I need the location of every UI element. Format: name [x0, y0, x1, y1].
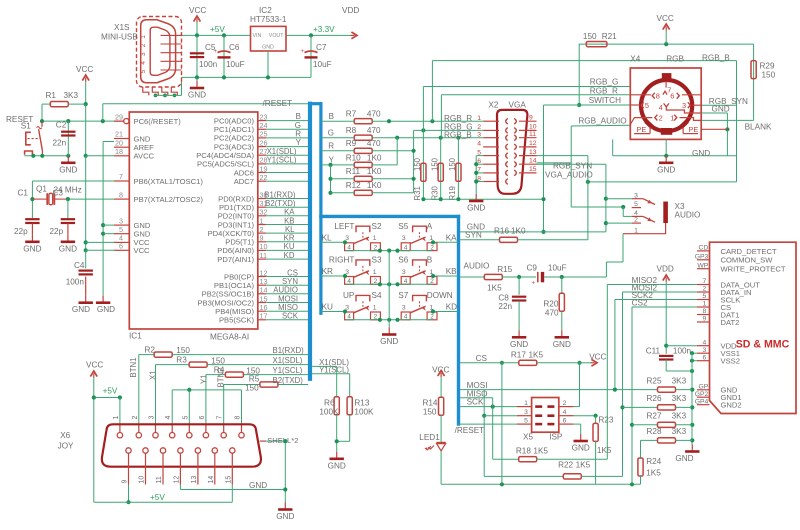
svg-text:R9: R9	[346, 139, 357, 148]
svg-text:150: 150	[762, 71, 776, 80]
svg-text:PE: PE	[688, 125, 698, 134]
svg-text:GP3: GP3	[695, 254, 709, 261]
svg-text:GND: GND	[188, 91, 206, 100]
svg-text:R26: R26	[647, 394, 662, 403]
svg-text:GND: GND	[657, 165, 675, 174]
svg-text:KA: KA	[446, 234, 457, 243]
svg-text:PB7(XTAL2/TOSC2): PB7(XTAL2/TOSC2)	[134, 195, 204, 204]
svg-text:GND: GND	[97, 305, 115, 314]
svg-text:WRITE_PROTECT: WRITE_PROTECT	[721, 265, 786, 274]
svg-text:9: 9	[122, 480, 129, 484]
svg-text:5: 5	[119, 225, 123, 234]
svg-text:7: 7	[119, 172, 123, 181]
svg-text:8: 8	[703, 308, 707, 315]
svg-text:6: 6	[563, 418, 567, 425]
svg-text:BLANK: BLANK	[745, 123, 772, 132]
svg-text:RGB_AUDIO: RGB_AUDIO	[578, 117, 626, 126]
svg-text:R25: R25	[647, 376, 662, 385]
svg-text:Y1: Y1	[200, 374, 209, 384]
svg-text:R3: R3	[176, 356, 187, 365]
svg-text:9: 9	[529, 114, 533, 121]
svg-text:6: 6	[670, 92, 674, 101]
svg-text:+3.3V: +3.3V	[313, 25, 335, 34]
svg-text:23: 23	[260, 112, 268, 121]
svg-text:R15: R15	[497, 265, 512, 274]
svg-text:/RESET: /RESET	[263, 99, 293, 108]
svg-text:8: 8	[656, 92, 660, 101]
svg-text:10: 10	[139, 476, 146, 484]
svg-text:1K0: 1K0	[367, 153, 382, 162]
svg-text:3: 3	[682, 101, 686, 110]
svg-text:C6: C6	[229, 43, 240, 52]
svg-text:G: G	[328, 129, 334, 138]
svg-text:JOY: JOY	[58, 442, 74, 451]
svg-text:Y1(SCL): Y1(SCL)	[267, 156, 297, 165]
svg-text:11: 11	[260, 251, 267, 260]
svg-text:1K5: 1K5	[529, 351, 544, 360]
svg-text:150: 150	[245, 383, 259, 392]
svg-text:10uF: 10uF	[313, 60, 332, 69]
svg-text:R27: R27	[647, 412, 662, 421]
svg-text:KL: KL	[322, 234, 332, 243]
svg-text:IC2: IC2	[259, 6, 272, 15]
svg-text:PD7(AIN1): PD7(AIN1)	[217, 255, 254, 264]
svg-text:15: 15	[225, 476, 232, 484]
svg-text:PC4(ADC4/SDA): PC4(ADC4/SDA)	[196, 151, 254, 160]
svg-text:ADC7: ADC7	[234, 177, 254, 186]
svg-text:150: 150	[423, 408, 437, 417]
svg-text:3K3: 3K3	[64, 91, 79, 100]
svg-text:ISP: ISP	[549, 433, 563, 442]
svg-text:S6: S6	[398, 256, 408, 265]
svg-text:22n: 22n	[498, 302, 512, 311]
svg-text:R12: R12	[346, 181, 361, 190]
svg-text:PD0(RXD): PD0(RXD)	[218, 194, 254, 203]
svg-text:32: 32	[260, 208, 268, 217]
svg-text:2: 2	[140, 43, 147, 47]
svg-text:12: 12	[260, 268, 268, 277]
svg-text:5: 5	[645, 101, 649, 110]
svg-text:Y: Y	[296, 138, 302, 147]
svg-text:R16: R16	[494, 227, 509, 236]
svg-text:1K5: 1K5	[487, 284, 502, 293]
svg-text:4: 4	[659, 103, 663, 112]
svg-text:4: 4	[703, 339, 707, 346]
svg-text:C11: C11	[646, 346, 661, 355]
svg-text:22p: 22p	[50, 227, 64, 236]
svg-text:KD: KD	[284, 251, 295, 260]
svg-text:10uF: 10uF	[226, 60, 245, 69]
svg-text:B1(RXD): B1(RXD)	[264, 190, 296, 199]
svg-text:GND: GND	[712, 105, 730, 114]
svg-text:R19: R19	[448, 186, 457, 200]
svg-text:17: 17	[260, 312, 268, 321]
svg-text:5: 5	[634, 201, 638, 208]
svg-text:KD: KD	[446, 303, 457, 312]
svg-text:SCK: SCK	[467, 398, 484, 407]
svg-text:+: +	[532, 281, 536, 287]
svg-text:R22: R22	[558, 461, 573, 470]
svg-text:KB: KB	[446, 267, 457, 276]
svg-text:29: 29	[115, 112, 123, 121]
svg-text:8: 8	[119, 190, 123, 199]
svg-text:3: 3	[402, 235, 406, 242]
svg-text:GP4: GP4	[695, 398, 709, 405]
svg-text:GND: GND	[59, 165, 77, 174]
svg-text:SYN: SYN	[465, 230, 482, 239]
svg-text:WP: WP	[697, 262, 708, 269]
svg-text:VGA_AUDIO: VGA_AUDIO	[545, 171, 593, 180]
svg-text:R: R	[295, 129, 301, 138]
svg-text:PC6(/RESET): PC6(/RESET)	[134, 117, 182, 126]
svg-text:8: 8	[235, 416, 242, 420]
svg-text:AUDIO: AUDIO	[464, 262, 490, 271]
svg-text:+5V: +5V	[210, 25, 225, 34]
svg-text:10: 10	[260, 242, 268, 251]
svg-text:MOSI: MOSI	[278, 294, 298, 303]
svg-text:3: 3	[634, 192, 638, 199]
svg-text:14: 14	[260, 286, 268, 295]
svg-text:GND: GND	[249, 481, 267, 490]
svg-text:CS2: CS2	[632, 299, 648, 308]
svg-text:COMMON_SW: COMMON_SW	[721, 256, 774, 265]
svg-text:R14: R14	[422, 399, 437, 408]
svg-text:+: +	[301, 49, 305, 55]
svg-text:15: 15	[260, 294, 268, 303]
svg-text:150: 150	[583, 32, 597, 41]
svg-text:X2: X2	[488, 101, 498, 110]
svg-text:7: 7	[703, 278, 707, 285]
svg-text:GND: GND	[59, 244, 77, 253]
svg-text:GND: GND	[572, 444, 590, 453]
svg-text:1K0: 1K0	[367, 167, 382, 176]
svg-text:3: 3	[149, 416, 156, 420]
svg-text:7: 7	[217, 416, 224, 420]
svg-text:2: 2	[563, 400, 567, 407]
svg-text:RGB_G: RGB_G	[590, 78, 619, 87]
svg-text:3K3: 3K3	[672, 376, 687, 385]
svg-text:470: 470	[367, 126, 381, 135]
svg-text:5: 5	[140, 69, 147, 73]
svg-text:R1: R1	[46, 91, 57, 100]
svg-text:1: 1	[670, 114, 674, 123]
svg-text:1: 1	[703, 301, 707, 308]
svg-text:X1S: X1S	[114, 23, 130, 32]
svg-text:1K5: 1K5	[597, 446, 612, 455]
svg-text:VCC: VCC	[134, 246, 151, 255]
svg-text:100n: 100n	[199, 60, 218, 69]
svg-text:2: 2	[132, 416, 139, 420]
svg-text:2: 2	[659, 114, 663, 123]
svg-text:R: R	[328, 142, 334, 151]
svg-text:3: 3	[140, 52, 147, 56]
svg-text:2: 2	[703, 286, 707, 293]
svg-text:R11: R11	[346, 167, 361, 176]
svg-text:1: 1	[140, 35, 147, 39]
svg-text:+5V: +5V	[103, 386, 118, 395]
svg-text:100n: 100n	[66, 278, 85, 287]
svg-text:+5V: +5V	[150, 493, 165, 502]
svg-text:22: 22	[260, 173, 268, 182]
svg-text:S3: S3	[372, 256, 382, 265]
svg-text:PB0(CP): PB0(CP)	[224, 272, 254, 281]
svg-text:PB2(SS/OC1B): PB2(SS/OC1B)	[202, 290, 255, 299]
svg-text:GND: GND	[328, 461, 346, 470]
svg-text:CS: CS	[476, 354, 488, 363]
svg-text:1: 1	[524, 400, 528, 407]
svg-text:1: 1	[373, 304, 377, 311]
svg-text:150: 150	[448, 157, 457, 171]
svg-text:R18: R18	[516, 446, 531, 455]
svg-text:GP2: GP2	[695, 391, 709, 398]
svg-text:GND: GND	[553, 340, 571, 349]
svg-text:RIGHT: RIGHT	[329, 256, 354, 265]
svg-text:R2: R2	[145, 345, 156, 354]
svg-text:GND2: GND2	[721, 401, 742, 410]
svg-text:1: 1	[373, 235, 377, 242]
svg-text:SCK: SCK	[282, 312, 299, 321]
svg-text:3K3: 3K3	[672, 412, 687, 421]
svg-text:150: 150	[211, 356, 225, 365]
svg-text:2: 2	[477, 124, 481, 131]
svg-text:R21: R21	[602, 32, 617, 41]
svg-text:18: 18	[115, 147, 123, 156]
svg-text:6: 6	[119, 242, 123, 251]
svg-text:PB3(MOSI/OC2): PB3(MOSI/OC2)	[197, 298, 254, 307]
svg-text:14: 14	[208, 476, 215, 484]
svg-text:1K5: 1K5	[533, 446, 548, 455]
svg-text:150: 150	[413, 157, 422, 171]
svg-text:A: A	[427, 222, 433, 231]
svg-text:HT7533-1: HT7533-1	[250, 15, 287, 24]
svg-text:11: 11	[156, 476, 163, 483]
svg-text:3K3: 3K3	[672, 394, 687, 403]
svg-text:X4: X4	[630, 55, 640, 64]
svg-text:GND: GND	[692, 149, 710, 158]
svg-text:GND: GND	[380, 337, 398, 346]
svg-text:B: B	[296, 112, 301, 121]
svg-text:3: 3	[477, 132, 481, 139]
svg-text:150: 150	[431, 157, 440, 171]
svg-text:PC0(ADC0): PC0(ADC0)	[214, 116, 255, 125]
svg-text:S5: S5	[398, 222, 408, 231]
svg-text:1K0: 1K0	[511, 227, 526, 236]
svg-text:KR: KR	[322, 267, 333, 276]
svg-text:C4: C4	[74, 261, 85, 270]
svg-text:GND: GND	[23, 244, 41, 253]
svg-text:VCC: VCC	[86, 361, 103, 370]
svg-text:GND: GND	[72, 305, 90, 314]
svg-text:RGB_SYN: RGB_SYN	[553, 162, 592, 171]
svg-text:10: 10	[529, 124, 537, 131]
svg-text:2: 2	[634, 217, 638, 224]
svg-text:KA: KA	[284, 208, 295, 217]
svg-text:PD2(INT0): PD2(INT0)	[218, 212, 255, 221]
svg-text:15: 15	[529, 166, 537, 173]
svg-text:C3: C3	[53, 189, 64, 198]
svg-text:RGB: RGB	[666, 55, 684, 64]
svg-text:GND: GND	[262, 44, 274, 50]
svg-text:IC1: IC1	[129, 332, 142, 341]
svg-text:1: 1	[477, 115, 481, 122]
svg-text:X1(SDL): X1(SDL)	[267, 147, 297, 156]
svg-text:R29: R29	[760, 62, 775, 71]
svg-text:Y1(SCL): Y1(SCL)	[273, 366, 303, 375]
svg-text:470: 470	[545, 308, 559, 317]
svg-text:Q1: Q1	[36, 185, 47, 194]
svg-text:VCC: VCC	[589, 352, 606, 361]
svg-text:+: +	[214, 49, 218, 55]
svg-text:S4: S4	[372, 291, 382, 300]
svg-text:R10: R10	[346, 153, 361, 162]
svg-text:5: 5	[703, 293, 707, 300]
svg-text:R31: R31	[413, 186, 422, 200]
svg-text:UP: UP	[343, 291, 355, 300]
svg-text:LED1: LED1	[419, 433, 440, 442]
svg-text:13: 13	[191, 476, 198, 484]
svg-text:PD4(XCK/T0): PD4(XCK/T0)	[208, 229, 255, 238]
svg-text:B2(TXD): B2(TXD)	[273, 376, 304, 385]
svg-text:BTN1: BTN1	[129, 358, 138, 378]
svg-text:S2: S2	[372, 222, 382, 231]
svg-text:R23: R23	[598, 415, 613, 424]
svg-text:12: 12	[173, 476, 180, 484]
svg-text:VOUT: VOUT	[269, 33, 284, 39]
svg-text:GP: GP	[698, 384, 708, 391]
svg-text:SD & MMC: SD & MMC	[736, 339, 790, 351]
svg-text:22n: 22n	[53, 139, 67, 148]
svg-text:2: 2	[260, 225, 264, 234]
svg-text:CD: CD	[698, 245, 708, 252]
svg-text:R8: R8	[346, 126, 357, 135]
svg-text:C9: C9	[527, 263, 538, 272]
svg-text:SWITCH: SWITCH	[589, 96, 621, 105]
svg-text:X5: X5	[523, 433, 533, 442]
svg-text:R17: R17	[511, 351, 526, 360]
svg-text:5: 5	[182, 416, 189, 420]
svg-text:RGB_R: RGB_R	[590, 87, 618, 96]
svg-text:3K3: 3K3	[672, 427, 687, 436]
svg-text:DAT2: DAT2	[721, 318, 740, 327]
svg-text:GND: GND	[510, 340, 528, 349]
svg-text:1: 1	[373, 269, 377, 276]
svg-text:AVCC: AVCC	[134, 152, 155, 161]
svg-text:470: 470	[367, 139, 381, 148]
svg-text:X6: X6	[60, 431, 70, 440]
svg-text:1K5: 1K5	[576, 461, 591, 470]
svg-text:100K: 100K	[354, 408, 374, 417]
svg-text:VCC: VCC	[76, 65, 93, 74]
svg-text:MINI-USB: MINI-USB	[101, 33, 138, 42]
svg-text:4: 4	[165, 416, 172, 420]
svg-text:R13: R13	[354, 399, 369, 408]
svg-text:/RESET: /RESET	[455, 426, 485, 435]
svg-text:VDD: VDD	[657, 265, 674, 274]
svg-text:3: 3	[402, 269, 406, 276]
svg-text:B: B	[329, 112, 334, 121]
svg-text:21: 21	[115, 130, 123, 139]
svg-text:VCC: VCC	[189, 6, 206, 15]
svg-text:R28: R28	[647, 427, 662, 436]
svg-text:14: 14	[529, 157, 537, 164]
svg-text:22p: 22p	[14, 227, 28, 236]
svg-text:GND: GND	[276, 512, 294, 521]
svg-text:RGB_B: RGB_B	[702, 53, 730, 62]
svg-text:1: 1	[113, 416, 120, 420]
svg-text:B1(RXD): B1(RXD)	[273, 346, 305, 355]
svg-text:VDD: VDD	[342, 6, 359, 15]
svg-text:1K5: 1K5	[646, 469, 661, 478]
svg-text:R30: R30	[431, 186, 440, 201]
svg-text:ADC6: ADC6	[234, 168, 254, 177]
svg-text:AUDIO: AUDIO	[675, 211, 701, 220]
svg-text:LEFT: LEFT	[334, 222, 354, 231]
svg-text:CS: CS	[287, 268, 298, 277]
svg-text:150: 150	[176, 346, 190, 355]
svg-text:5: 5	[524, 418, 528, 425]
svg-text:C2: C2	[56, 121, 67, 130]
svg-text:12: 12	[529, 140, 537, 147]
svg-text:PD6(AIN0): PD6(AIN0)	[217, 246, 254, 255]
svg-text:GND: GND	[675, 454, 693, 463]
svg-text:SHELL*2: SHELL*2	[267, 436, 298, 445]
svg-text:Y1(SCL): Y1(SCL)	[319, 366, 349, 375]
svg-text:PE: PE	[636, 125, 646, 134]
svg-text:470: 470	[367, 110, 381, 119]
svg-text:S1: S1	[21, 122, 31, 131]
svg-text:PB5(SCK): PB5(SCK)	[219, 316, 254, 325]
svg-text:1K0: 1K0	[367, 181, 382, 190]
svg-text:VGA: VGA	[509, 101, 527, 110]
svg-text:3: 3	[524, 409, 528, 416]
svg-text:100K: 100K	[319, 408, 339, 417]
svg-text:3: 3	[402, 304, 406, 311]
svg-text:VCC: VCC	[657, 14, 674, 23]
svg-text:R5: R5	[249, 375, 260, 384]
svg-text:3: 3	[703, 347, 707, 354]
svg-text:DOWN: DOWN	[427, 291, 453, 300]
svg-text:VIN: VIN	[253, 33, 262, 39]
svg-text:R6: R6	[324, 399, 335, 408]
svg-text:KU: KU	[284, 242, 295, 251]
svg-text:PC2(ADC2): PC2(ADC2)	[214, 134, 255, 143]
svg-text:GND: GND	[134, 230, 151, 239]
svg-text:MEGA8-AI: MEGA8-AI	[210, 333, 249, 342]
svg-text:4: 4	[477, 141, 481, 148]
svg-text:10uF: 10uF	[548, 263, 567, 272]
svg-text:13: 13	[529, 149, 537, 156]
svg-text:11: 11	[529, 131, 536, 138]
svg-text:AUDIO: AUDIO	[273, 286, 298, 295]
svg-text:GND: GND	[467, 204, 485, 213]
svg-text:CARD_DETECT: CARD_DETECT	[721, 247, 777, 256]
svg-text:B: B	[427, 256, 433, 265]
svg-text:19: 19	[260, 164, 268, 173]
svg-text:C7: C7	[316, 43, 327, 52]
svg-text:GND: GND	[134, 134, 151, 143]
svg-text:100n: 100n	[673, 346, 692, 355]
svg-text:S7: S7	[398, 291, 408, 300]
svg-text:4: 4	[563, 409, 567, 416]
svg-text:4: 4	[140, 61, 147, 65]
svg-text:9: 9	[703, 316, 707, 323]
svg-text:KL: KL	[285, 225, 295, 234]
svg-text:6: 6	[199, 416, 206, 420]
svg-text:KU: KU	[322, 303, 333, 312]
svg-text:VSS2: VSS2	[721, 357, 740, 366]
svg-text:R7: R7	[346, 110, 357, 119]
svg-text:25: 25	[260, 130, 268, 139]
